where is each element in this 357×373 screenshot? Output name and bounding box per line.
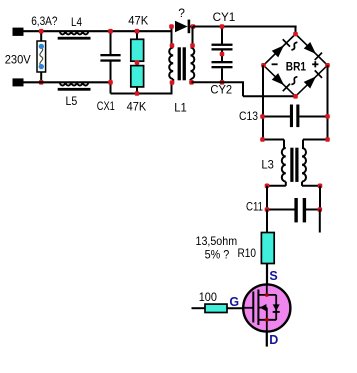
wire R10 top lead bbox=[266, 210, 268, 234]
wire CY2 bottom lead bbox=[221, 68, 223, 82]
wire CX1 top lead bbox=[110, 31, 112, 54]
wire 47K chain top lead bbox=[136, 31, 138, 40]
node diode cathode junction bbox=[191, 24, 196, 29]
wire fuse top lead bbox=[40, 31, 42, 42]
node CY1 top junction bbox=[220, 24, 225, 29]
wire down to C11 left bbox=[266, 186, 268, 210]
bridge diode bottom-right bbox=[304, 76, 316, 88]
capacitor CY2 bbox=[212, 61, 233, 63]
svg-text:C13: C13 bbox=[239, 109, 258, 123]
wire open stub below C11 right bbox=[319, 210, 321, 233]
node 47K top junction bbox=[135, 29, 140, 34]
node L1 left coil top pin bbox=[170, 43, 175, 48]
bridge rectifier BR1 outline bbox=[264, 34, 328, 96]
terminal J2 (mains bottom) bbox=[13, 78, 24, 86]
svg-text:C11: C11 bbox=[246, 199, 263, 213]
wire negative rail down (bridge to L3) bbox=[262, 65, 264, 139]
wire Q1 source internal bbox=[266, 284, 268, 295]
transformer L1 left winding bbox=[169, 48, 173, 80]
wire L1 left bottom stub bbox=[172, 79, 174, 83]
transistor Q1 channel bar bbox=[257, 290, 259, 326]
wire riser to L1 left coil bottom bbox=[171, 83, 173, 94]
node CX1 top junction bbox=[108, 29, 113, 34]
node bridge AC2 (bottom vertex) bbox=[293, 94, 298, 99]
wire C11 left lead bbox=[267, 209, 295, 211]
wire positive rail down (bridge to L3) bbox=[327, 65, 329, 139]
svg-text:BR1: BR1 bbox=[286, 60, 306, 74]
node Q1 drain tie bbox=[265, 318, 269, 322]
wire between 47K resistors bbox=[136, 61, 138, 66]
node bridge positive (right vertex) bbox=[325, 63, 330, 68]
node diode anode junction bbox=[169, 24, 174, 29]
svg-text:L4: L4 bbox=[71, 15, 82, 29]
wire L3 top-left lead bbox=[263, 139, 284, 141]
wire L1 right top lead bbox=[192, 27, 194, 48]
node fuse-bottom junction bbox=[39, 80, 44, 85]
node bridge AC1 (top vertex) bbox=[293, 32, 298, 37]
transformer L3 core bbox=[290, 148, 293, 182]
svg-text:47K: 47K bbox=[128, 14, 148, 28]
wire fuse bottom lead bbox=[40, 72, 42, 83]
transistor Q1 MOSFET body bbox=[243, 284, 290, 331]
node L3 bottom-right pin bbox=[318, 184, 323, 189]
wire bottom rail (J2 to L5 to CX1) bbox=[23, 81, 111, 83]
label ~ (AC top) bbox=[291, 42, 297, 50]
wire C13 right lead bbox=[299, 116, 327, 118]
wire C11 right lead bbox=[306, 209, 320, 211]
node CY2 bottom junction bbox=[220, 80, 225, 85]
wire gate resistor left lead (open end) bbox=[192, 307, 206, 309]
node between 47K resistors bbox=[135, 60, 140, 65]
node CX1 / L5 junction bbox=[108, 80, 113, 85]
capacitor CX1 bbox=[100, 54, 120, 56]
node L3 bottom-left pin bbox=[265, 184, 270, 189]
svg-text:L3: L3 bbox=[261, 158, 274, 172]
svg-text:L5: L5 bbox=[66, 94, 78, 108]
diode D1 ? bbox=[175, 21, 188, 33]
node L3 top-right pin bbox=[325, 137, 330, 142]
wire jog down toward bridge AC2 bbox=[242, 82, 244, 96]
node C13 left junction bbox=[260, 114, 265, 119]
node C11 left junction bbox=[265, 207, 270, 212]
svg-text:G: G bbox=[229, 295, 239, 309]
svg-text:230V: 230V bbox=[5, 53, 31, 67]
node C11 right junction bbox=[318, 207, 323, 212]
wire L1 right bottom stub bbox=[190, 79, 192, 82]
label + (positive) bbox=[312, 63, 318, 65]
svg-text:6,3A?: 6,3A? bbox=[31, 14, 58, 28]
capacitor CY1 bbox=[212, 44, 233, 46]
wire between CY1 and CY2 bbox=[221, 51, 223, 62]
wire node A riser (diode anode down to L1) bbox=[171, 27, 173, 48]
svg-text:5% ?: 5% ? bbox=[205, 248, 230, 262]
svg-text:100: 100 bbox=[199, 290, 217, 304]
wire C13 left lead bbox=[263, 116, 290, 118]
svg-text:D: D bbox=[269, 333, 278, 347]
node L1 right coil bottom pin bbox=[189, 80, 194, 85]
node L1 left coil bottom pin bbox=[170, 80, 175, 85]
wire L3 left bottom lead bbox=[285, 182, 287, 186]
node L3 top-left pin bbox=[260, 137, 265, 142]
diode Q1 body diode bbox=[273, 304, 280, 311]
svg-text:CX1: CX1 bbox=[97, 99, 115, 113]
resistor R? 47K (upper) bbox=[131, 39, 144, 61]
svg-text:L1: L1 bbox=[174, 101, 187, 115]
wire Q1 substrate tap with arrow bbox=[258, 307, 266, 309]
wire Q1 drain stub below bbox=[266, 332, 268, 347]
fuse F1 6,3A? bbox=[37, 41, 46, 72]
resistor R? 100 bbox=[205, 304, 227, 312]
wire 47K chain bottom lead bbox=[136, 87, 138, 94]
node C13 right junction bbox=[325, 114, 330, 119]
wire L3 right bottom lead bbox=[301, 182, 303, 186]
node fuse-top junction bbox=[39, 29, 44, 34]
transformer L3 left winding bbox=[282, 148, 286, 182]
inductor L4 bbox=[60, 31, 88, 34]
wire CY1 top lead bbox=[221, 27, 223, 45]
svg-text:?: ? bbox=[178, 6, 185, 20]
node Q1 source tie bbox=[265, 293, 269, 297]
svg-text:CY2: CY2 bbox=[210, 83, 232, 97]
wire L1 secondary bottom to CY2 node bbox=[192, 81, 245, 83]
bridge diode bottom-left bbox=[272, 73, 284, 85]
label - (negative) bbox=[272, 63, 278, 65]
wire L3 top-right lead bbox=[303, 139, 328, 141]
wire top rail right (cathode to bridge) bbox=[193, 26, 297, 28]
node CY1-CY2 junction bbox=[220, 52, 225, 57]
wire down to C11 right bbox=[319, 186, 321, 210]
transformer L1 core bbox=[178, 47, 181, 80]
wire top rail (J1 to L4 to node) bbox=[23, 30, 172, 32]
wire Q1 gate lead internal bbox=[243, 307, 254, 309]
capacitor C13 bbox=[290, 105, 293, 128]
bridge diode top-right bbox=[304, 42, 316, 54]
svg-text:R10: R10 bbox=[238, 246, 257, 260]
bridge diode top-left bbox=[272, 45, 284, 57]
resistor R? 47K (lower) bbox=[131, 66, 144, 87]
transistor Q1 gate bar bbox=[252, 292, 254, 323]
svg-text:13,5ohm: 13,5ohm bbox=[196, 234, 238, 248]
capacitor C11 bbox=[294, 198, 297, 222]
wire R10 to MOSFET source bbox=[266, 264, 268, 286]
svg-text:47K: 47K bbox=[127, 100, 147, 114]
svg-text:CY1: CY1 bbox=[213, 10, 236, 24]
wire to bridge bottom vertex bbox=[243, 95, 297, 97]
wire Q1 body-diode branch bbox=[275, 295, 277, 320]
inductor L5 bbox=[60, 83, 88, 86]
wire Q1 drain internal bbox=[258, 319, 276, 321]
resistor R10 13,5ohm bbox=[261, 233, 274, 264]
terminal J1 (mains top) bbox=[13, 28, 24, 36]
node 47K bottom junction bbox=[135, 91, 140, 96]
label ~ (AC bottom) bbox=[291, 77, 297, 85]
wire drop to bridge top vertex bbox=[295, 27, 297, 35]
wire CX1 bottom lead bbox=[110, 62, 112, 94]
node bridge negative (left vertex) bbox=[261, 63, 266, 68]
svg-text:S: S bbox=[269, 269, 277, 283]
wire lower link (CX1 bottom to L1 bottom) bbox=[111, 93, 173, 95]
wire gate resistor to Q1 gate bbox=[227, 307, 244, 309]
transformer L3 right winding bbox=[302, 148, 306, 182]
node L1 right coil top pin bbox=[190, 43, 195, 48]
